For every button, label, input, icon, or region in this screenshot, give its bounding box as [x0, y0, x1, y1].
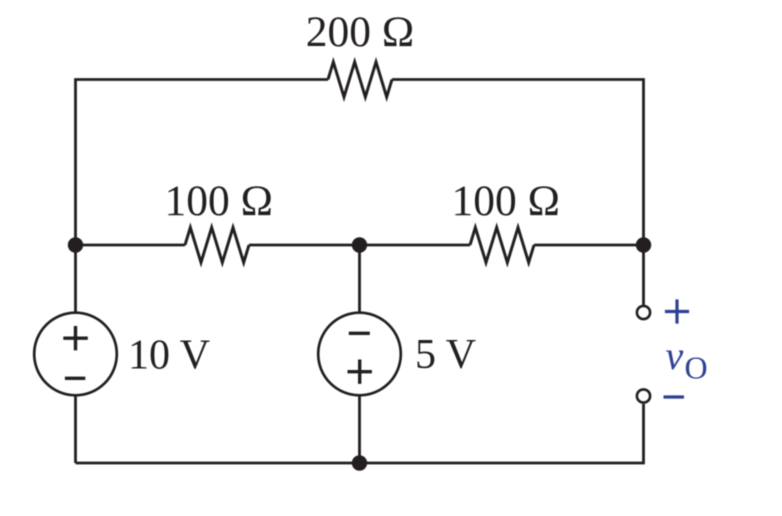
wire top-left: node a up left side and along top to 200-ohm left lead: [76, 80, 329, 247]
bottom node junction dot: [352, 455, 367, 470]
lower output terminal (open circle): [637, 389, 650, 402]
wire: 10V source bottom to bottom rail: [74, 395, 77, 463]
wire middle-left: node a to 100-ohm R2 left lead: [76, 244, 186, 247]
output plus sign (blue): [665, 299, 689, 323]
wire: 5V source bottom to bottom node: [358, 395, 361, 463]
wire: R2 right lead to node b: [249, 244, 360, 247]
node c junction dot: [636, 237, 651, 252]
resistor R1 200 ohm zigzag: [328, 62, 392, 97]
V1 plus sign: [63, 326, 88, 350]
node b junction dot: [352, 237, 367, 252]
svg-text:100 Ω: 100 Ω: [164, 177, 272, 225]
wire top-right: 200-ohm right lead along top and down right side to node c: [392, 80, 644, 246]
V2 plus sign: [348, 360, 372, 384]
wire: node c down to upper output terminal: [642, 245, 645, 306]
svg-text:v: v: [666, 333, 684, 378]
resistor R2 100 ohm zigzag: [185, 228, 249, 263]
label vO output voltage: [666, 333, 708, 386]
resistor R3 100 ohm zigzag: [470, 228, 534, 263]
wire: node a down to 10V source top: [74, 245, 77, 313]
V1 minus sign: [65, 377, 85, 380]
V2 minus sign: [349, 332, 370, 335]
svg-text:5 V: 5 V: [415, 332, 476, 378]
voltage source V2 circle: [318, 313, 401, 396]
upper output terminal (open circle): [637, 306, 650, 319]
wire: node b to 100-ohm R3 left lead: [360, 244, 471, 247]
svg-text:10 V: 10 V: [128, 333, 210, 379]
output minus sign (blue): [664, 395, 685, 398]
node a junction dot: [68, 237, 83, 252]
svg-text:O: O: [685, 350, 708, 386]
voltage source V1 circle: [34, 313, 117, 396]
svg-text:100 Ω: 100 Ω: [451, 177, 559, 225]
wire: R3 right lead to node c: [534, 244, 644, 247]
svg-text:200 Ω: 200 Ω: [306, 8, 414, 56]
wire bottom rail: from 10V leg along bottom and up to lower output terminal: [76, 404, 644, 463]
wire: node b down to 5V source top: [358, 245, 361, 313]
